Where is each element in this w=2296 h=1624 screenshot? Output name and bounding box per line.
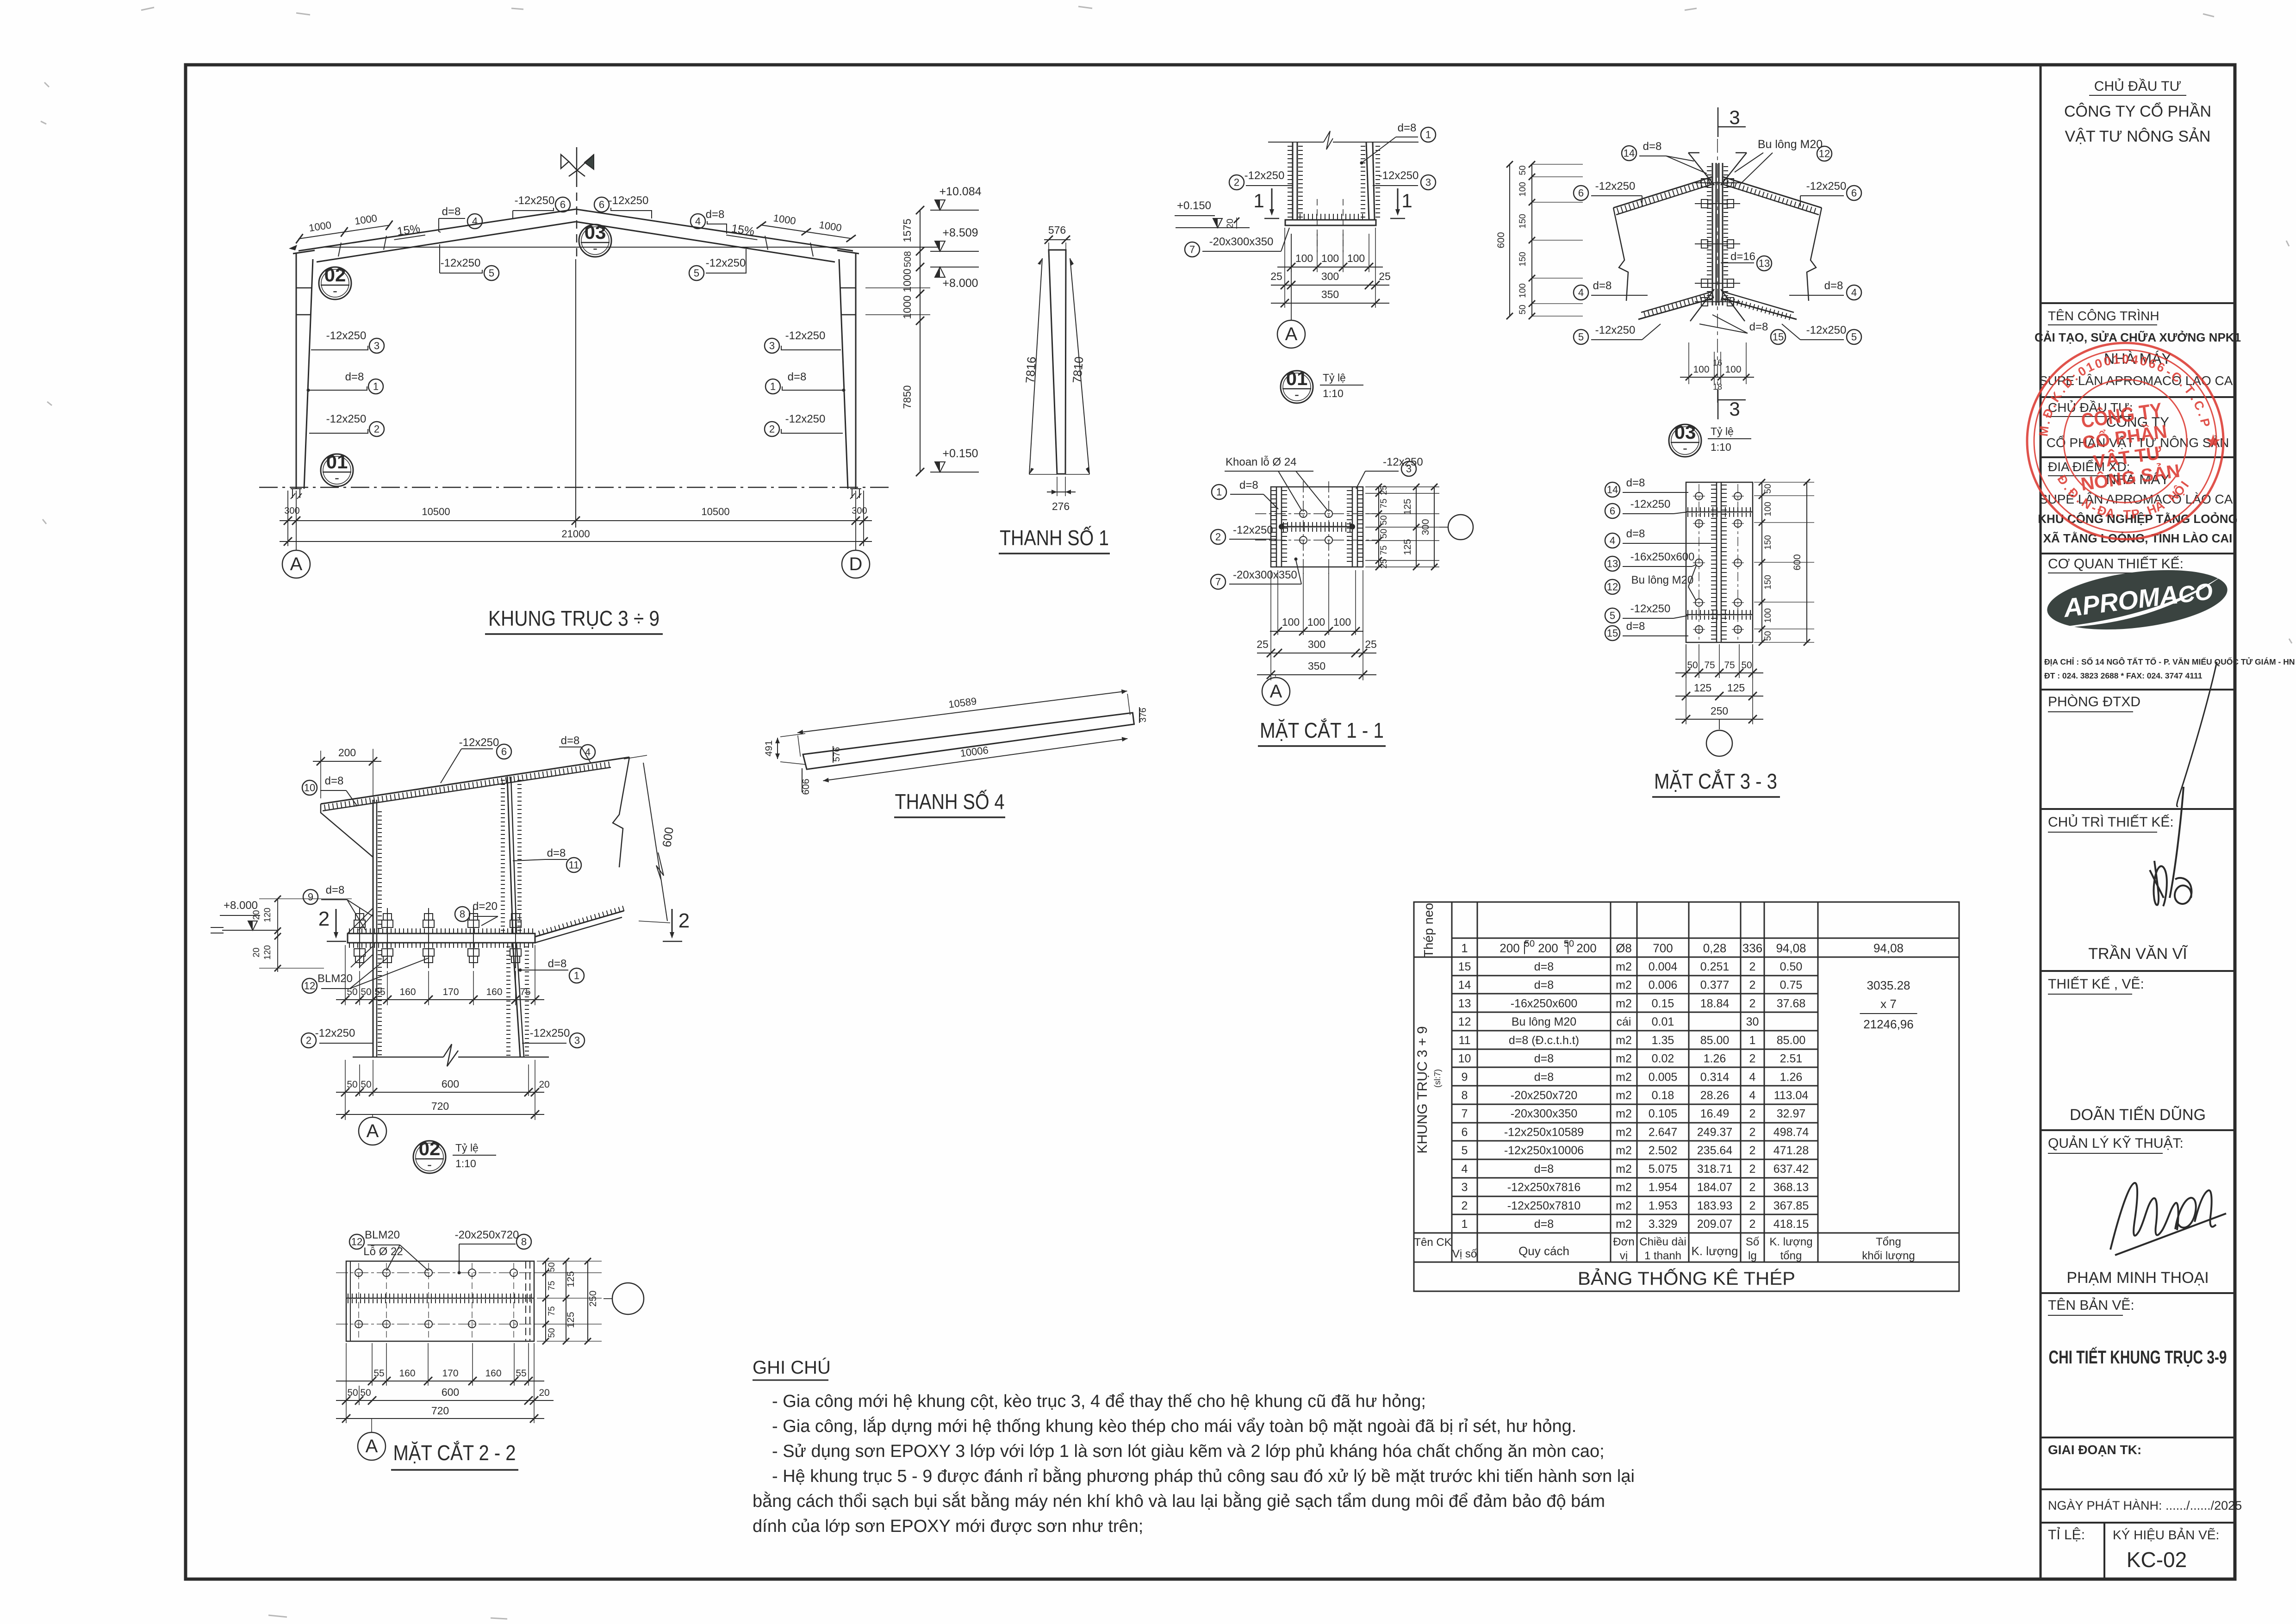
dim 350 bbox=[1271, 303, 1389, 304]
svg-text:4: 4 bbox=[585, 747, 591, 758]
svg-text:249.37: 249.37 bbox=[1697, 1126, 1732, 1139]
svg-text:-12x250x10006: -12x250x10006 bbox=[1504, 1144, 1584, 1157]
svg-text:ĐT : 024. 3823 2688 * FAX: 024: ĐT : 024. 3823 2688 * FAX: 024. 3747 411… bbox=[2044, 671, 2203, 680]
svg-text:Tổng: Tổng bbox=[1876, 1236, 1901, 1248]
empty bubble bbox=[1439, 527, 1448, 528]
label circle 6 bbox=[1574, 186, 1588, 200]
svg-text:160: 160 bbox=[486, 987, 502, 997]
svg-text:+8.000: +8.000 bbox=[224, 899, 258, 912]
level mark +0.150 bbox=[930, 472, 979, 473]
svg-text:0.75: 0.75 bbox=[1780, 979, 1803, 992]
svg-text:125: 125 bbox=[1727, 682, 1745, 694]
svg-text:1.953: 1.953 bbox=[1649, 1199, 1678, 1212]
svg-text:120: 120 bbox=[263, 945, 273, 960]
svg-text:-12x250: -12x250 bbox=[459, 736, 499, 749]
svg-text:50: 50 bbox=[1524, 939, 1535, 949]
label circle 15 bbox=[1771, 330, 1786, 344]
svg-text:d=8: d=8 bbox=[1643, 140, 1662, 153]
svg-text:350: 350 bbox=[1321, 288, 1339, 300]
dims 25/300/25 bbox=[1271, 285, 1389, 286]
svg-text:491: 491 bbox=[764, 740, 774, 756]
column D outer flange bbox=[855, 254, 857, 489]
svg-text:02: 02 bbox=[324, 264, 346, 286]
svg-text:+10.084: +10.084 bbox=[939, 185, 981, 198]
svg-text:3: 3 bbox=[769, 340, 775, 352]
svg-text:CẢI TẠO, SỬA CHỮA XƯỞNG NPK1: CẢI TẠO, SỬA CHỮA XƯỞNG NPK1 bbox=[2035, 330, 2241, 344]
svg-text:7810: 7810 bbox=[1070, 356, 1086, 384]
left rafter outline bbox=[1613, 177, 1712, 208]
svg-text:-20x250x720: -20x250x720 bbox=[1511, 1089, 1578, 1102]
svg-text:100: 100 bbox=[1518, 283, 1528, 298]
svg-text:3: 3 bbox=[1406, 463, 1412, 475]
svg-text:576: 576 bbox=[1048, 224, 1066, 236]
svg-text:125: 125 bbox=[1402, 539, 1413, 555]
dim 200 top left bbox=[320, 751, 321, 798]
signature squiggle 2 bbox=[2150, 787, 2191, 906]
ground dash-dot line bbox=[259, 487, 893, 488]
svg-text:-12x250: -12x250 bbox=[315, 1027, 355, 1039]
svg-text:7: 7 bbox=[1462, 1108, 1468, 1120]
svg-text:25: 25 bbox=[1270, 270, 1282, 282]
svg-text:2: 2 bbox=[1749, 960, 1756, 973]
svg-text:K. lượng: K. lượng bbox=[1692, 1244, 1738, 1258]
svg-text:50: 50 bbox=[1687, 660, 1698, 671]
svg-text:11: 11 bbox=[1459, 1034, 1471, 1047]
svg-text:CÔNG TY CỔ PHẦN: CÔNG TY CỔ PHẦN bbox=[2064, 103, 2211, 120]
svg-text:-12x250: -12x250 bbox=[785, 330, 826, 342]
label circle 5 bbox=[484, 266, 499, 280]
column D inner flange bbox=[839, 259, 848, 489]
svg-text:20: 20 bbox=[539, 1388, 549, 1398]
label circle 15 bbox=[1605, 626, 1620, 641]
label circle 10 bbox=[302, 780, 317, 795]
svg-text:khối lượng: khối lượng bbox=[1862, 1250, 1915, 1262]
svg-text:d=8: d=8 bbox=[345, 371, 364, 383]
svg-text:2: 2 bbox=[318, 908, 330, 930]
svg-text:3: 3 bbox=[1729, 106, 1740, 128]
svg-text:01: 01 bbox=[326, 451, 348, 473]
svg-text:1000: 1000 bbox=[901, 268, 913, 292]
svg-text:-12x250: -12x250 bbox=[1806, 324, 1847, 336]
slope label 15% left bbox=[392, 221, 425, 240]
svg-text:5.075: 5.075 bbox=[1649, 1163, 1678, 1176]
column A outer flange bbox=[296, 254, 297, 489]
detail callout 01 bbox=[321, 454, 353, 486]
svg-text:-12x250: -12x250 bbox=[1630, 498, 1671, 510]
level mark +10.084 bbox=[930, 210, 979, 211]
svg-text:d=8: d=8 bbox=[1593, 280, 1612, 292]
svg-text:12: 12 bbox=[351, 1236, 362, 1248]
detail callout 02 bbox=[319, 267, 351, 299]
signature squiggle 1 bbox=[2177, 662, 2217, 806]
svg-text:606: 606 bbox=[801, 778, 811, 795]
svg-text:GHI CHÚ: GHI CHÚ bbox=[753, 1357, 831, 1378]
svg-text:300: 300 bbox=[284, 506, 299, 516]
svg-text:21000: 21000 bbox=[561, 528, 590, 540]
svg-text:150: 150 bbox=[1518, 252, 1528, 267]
svg-text:150: 150 bbox=[1763, 575, 1773, 590]
600 dim right slanted bbox=[643, 763, 667, 921]
svg-text:cái: cái bbox=[1617, 1015, 1631, 1028]
label circle 4 bbox=[580, 745, 595, 759]
svg-text:100: 100 bbox=[1282, 616, 1300, 628]
bolt circles bbox=[1695, 492, 1703, 500]
svg-text:1: 1 bbox=[1749, 1034, 1756, 1047]
rafter left top flange bbox=[299, 209, 576, 251]
svg-text:600: 600 bbox=[660, 826, 676, 848]
svg-text:BẢNG THỐNG KÊ THÉP: BẢNG THỐNG KÊ THÉP bbox=[1578, 1268, 1795, 1289]
svg-text:720: 720 bbox=[431, 1405, 449, 1417]
svg-text:336: 336 bbox=[1742, 941, 1762, 955]
svg-text:m2: m2 bbox=[1616, 1034, 1632, 1047]
svg-text:3: 3 bbox=[1425, 177, 1431, 188]
svg-text:Tỷ lệ: Tỷ lệ bbox=[455, 1142, 479, 1154]
svg-text:14: 14 bbox=[1458, 979, 1471, 992]
svg-text:508: 508 bbox=[902, 251, 913, 267]
svg-text:300: 300 bbox=[852, 506, 867, 516]
svg-text:-12x250: -12x250 bbox=[515, 194, 555, 207]
svg-text:55: 55 bbox=[516, 1368, 526, 1379]
overhang gusset bbox=[321, 804, 373, 857]
svg-text:75: 75 bbox=[1379, 498, 1389, 508]
column flange plates bbox=[1292, 142, 1294, 220]
svg-text:183.93: 183.93 bbox=[1697, 1199, 1732, 1212]
svg-text:2.502: 2.502 bbox=[1649, 1144, 1678, 1157]
svg-text:d=8: d=8 bbox=[326, 884, 345, 896]
label circle 7 bbox=[1211, 574, 1226, 589]
dim 276 bottom bbox=[1029, 474, 1057, 475]
svg-text:0,28: 0,28 bbox=[1703, 941, 1727, 955]
dim 576 top bbox=[1044, 239, 1070, 240]
svg-text:2: 2 bbox=[678, 909, 690, 932]
svg-text:MẶT CẮT 2 - 2: MẶT CẮT 2 - 2 bbox=[393, 1441, 516, 1465]
svg-text:PHÒNG ĐTXD: PHÒNG ĐTXD bbox=[2048, 694, 2140, 709]
bottom dims bbox=[1277, 570, 1278, 635]
label circle 11 bbox=[566, 858, 581, 872]
label circle 1 bbox=[569, 968, 584, 983]
svg-text:20: 20 bbox=[539, 1079, 549, 1090]
svg-text:85.00: 85.00 bbox=[1777, 1034, 1806, 1047]
svg-text:170: 170 bbox=[442, 1368, 458, 1379]
svg-text:m2: m2 bbox=[1616, 1052, 1632, 1065]
svg-text:-20x300x350: -20x300x350 bbox=[1209, 236, 1274, 248]
svg-text:★: ★ bbox=[2206, 432, 2221, 451]
svg-text:THANH SỐ 1: THANH SỐ 1 bbox=[1000, 526, 1109, 550]
label circle 2 bbox=[1229, 175, 1244, 190]
svg-text:100: 100 bbox=[1347, 252, 1365, 264]
base plate -20x300x350 bbox=[1285, 220, 1376, 225]
svg-text:d=8: d=8 bbox=[1626, 528, 1645, 540]
column break bottom bbox=[353, 1057, 443, 1058]
svg-text:-12x250x7816: -12x250x7816 bbox=[1507, 1181, 1580, 1194]
svg-text:0.251: 0.251 bbox=[1700, 960, 1730, 973]
svg-text:300: 300 bbox=[1420, 519, 1431, 535]
column A inner flange bbox=[304, 259, 313, 489]
svg-text:m2: m2 bbox=[1616, 1070, 1632, 1083]
label circle 14 bbox=[1605, 482, 1620, 497]
svg-text:Bu lông M20: Bu lông M20 bbox=[1758, 138, 1823, 151]
svg-text:-20x250x720: -20x250x720 bbox=[455, 1229, 519, 1241]
svg-text:12: 12 bbox=[1607, 581, 1618, 593]
svg-text:50: 50 bbox=[1763, 484, 1773, 493]
svg-text:-12x250x10589: -12x250x10589 bbox=[1504, 1126, 1584, 1139]
svg-text:(sl:7): (sl:7) bbox=[1433, 1069, 1442, 1088]
dim 1000x2 right above rafter bbox=[757, 210, 858, 243]
svg-text:BLM20: BLM20 bbox=[317, 972, 353, 985]
svg-text:498.74: 498.74 bbox=[1773, 1126, 1809, 1139]
svg-text:Bu lông M20: Bu lông M20 bbox=[1512, 1015, 1576, 1028]
svg-text:1: 1 bbox=[574, 970, 579, 982]
level mark +8.000 bbox=[930, 267, 979, 268]
svg-text:100: 100 bbox=[1518, 182, 1528, 197]
purlin tick marks on rafters bbox=[338, 243, 341, 256]
svg-text:13: 13 bbox=[1458, 997, 1471, 1010]
svg-text:184.07: 184.07 bbox=[1697, 1181, 1732, 1194]
svg-text:2: 2 bbox=[1749, 1181, 1756, 1194]
grid bubble stems bbox=[296, 491, 297, 550]
svg-text:lg: lg bbox=[1748, 1250, 1757, 1262]
svg-text:75: 75 bbox=[547, 1306, 557, 1316]
svg-text:150: 150 bbox=[1518, 214, 1528, 229]
svg-text:Số: Số bbox=[1746, 1236, 1759, 1248]
svg-text:d=8: d=8 bbox=[1824, 280, 1843, 292]
svg-text:KHUNG TRỤC 3 ÷ 9: KHUNG TRỤC 3 ÷ 9 bbox=[488, 606, 660, 630]
svg-text:d=8: d=8 bbox=[1534, 1163, 1554, 1176]
svg-text:3035.28: 3035.28 bbox=[1867, 978, 1910, 992]
svg-text:3: 3 bbox=[1729, 398, 1740, 420]
svg-text:2: 2 bbox=[1749, 1108, 1756, 1120]
svg-text:1: 1 bbox=[2112, 352, 2121, 367]
svg-text:200: 200 bbox=[1576, 941, 1596, 955]
right dashed edge bbox=[525, 1261, 526, 1341]
svg-text:-12x250: -12x250 bbox=[1233, 524, 1273, 536]
column base anchor detail left bbox=[291, 489, 302, 499]
svg-text:D: D bbox=[849, 554, 863, 574]
svg-text:10500: 10500 bbox=[701, 506, 729, 517]
svg-text:3.329: 3.329 bbox=[1649, 1218, 1678, 1231]
svg-text:637.42: 637.42 bbox=[1773, 1163, 1809, 1176]
column D cap bbox=[837, 250, 859, 254]
svg-text:m2: m2 bbox=[1616, 1181, 1632, 1194]
level mark +8.509 bbox=[930, 251, 979, 252]
label circle 3 bbox=[570, 1033, 585, 1048]
svg-text:18.84: 18.84 bbox=[1700, 997, 1730, 1010]
label circle 12 bbox=[302, 978, 317, 993]
svg-text:-12x250: -12x250 bbox=[1595, 180, 1636, 193]
svg-text:KC-02: KC-02 bbox=[2127, 1548, 2187, 1572]
svg-text:Bu lông M20: Bu lông M20 bbox=[1631, 574, 1694, 586]
svg-text:376: 376 bbox=[1139, 708, 1148, 722]
svg-text:15: 15 bbox=[1773, 331, 1784, 343]
svg-text:250: 250 bbox=[1711, 705, 1728, 717]
svg-text:d=8: d=8 bbox=[1398, 122, 1417, 134]
svg-text:5: 5 bbox=[1578, 331, 1584, 343]
svg-text:4: 4 bbox=[1462, 1163, 1468, 1176]
svg-text:d=8: d=8 bbox=[325, 775, 344, 787]
svg-text:Chiều dài: Chiều dài bbox=[1639, 1236, 1686, 1248]
span dim line 300/10500/10500/300 bbox=[280, 520, 872, 521]
svg-text:6: 6 bbox=[1851, 187, 1857, 199]
svg-text:d=8: d=8 bbox=[547, 847, 566, 859]
svg-text:2.647: 2.647 bbox=[1649, 1126, 1678, 1139]
svg-text:m2: m2 bbox=[1616, 979, 1632, 992]
label circle 14 bbox=[1622, 146, 1636, 161]
svg-text:d=8: d=8 bbox=[1534, 1052, 1554, 1065]
svg-text:318.71: 318.71 bbox=[1697, 1163, 1732, 1176]
svg-text:TỈ LỆ:: TỈ LỆ: bbox=[2048, 1527, 2085, 1543]
svg-text:d=8: d=8 bbox=[706, 208, 725, 221]
svg-text:CHỦ ĐẦU TƯ: CHỦ ĐẦU TƯ bbox=[2094, 78, 2181, 94]
svg-text:300: 300 bbox=[1308, 638, 1325, 650]
svg-text:2: 2 bbox=[374, 423, 380, 435]
svg-text:13: 13 bbox=[1759, 258, 1770, 269]
svg-text:2: 2 bbox=[1749, 1218, 1756, 1231]
grid bubble D bbox=[842, 550, 870, 578]
svg-text:25: 25 bbox=[1379, 485, 1389, 495]
svg-text:PHẠM MINH THOẠI: PHẠM MINH THOẠI bbox=[2066, 1269, 2209, 1287]
svg-text:CHỦ TRÌ THIẾT KẾ:: CHỦ TRÌ THIẾT KẾ: bbox=[2048, 814, 2174, 830]
svg-text:1: 1 bbox=[1461, 941, 1468, 955]
svg-text:d=8 (Đ.c.t.h.t): d=8 (Đ.c.t.h.t) bbox=[1509, 1034, 1579, 1047]
top gusset bbox=[1688, 153, 1747, 185]
svg-text:276: 276 bbox=[1052, 500, 1070, 512]
svg-text:+0.150: +0.150 bbox=[1177, 199, 1211, 212]
label circle 2 bbox=[1211, 529, 1226, 544]
svg-text:125: 125 bbox=[566, 1271, 576, 1287]
bolt gauge dashed verticals + holes bbox=[358, 1263, 359, 1339]
svg-text:tổng: tổng bbox=[1780, 1250, 1802, 1262]
svg-text:250: 250 bbox=[588, 1290, 598, 1307]
svg-text:350: 350 bbox=[1308, 660, 1325, 672]
svg-text:16: 16 bbox=[1713, 358, 1722, 367]
svg-text:-12x250: -12x250 bbox=[1244, 169, 1285, 182]
detail callout 02 bbox=[413, 1141, 446, 1173]
svg-text:3: 3 bbox=[574, 1035, 580, 1046]
svg-text:d=8: d=8 bbox=[548, 958, 567, 970]
svg-text:2.51: 2.51 bbox=[1780, 1052, 1803, 1065]
svg-text:50: 50 bbox=[547, 1262, 557, 1272]
column D splice ticks bbox=[840, 287, 856, 289]
svg-text:160: 160 bbox=[399, 987, 416, 997]
svg-text:50: 50 bbox=[1518, 305, 1528, 314]
label circle 2 bbox=[369, 422, 384, 436]
chain extension lines bbox=[865, 287, 930, 288]
svg-text:Ø8: Ø8 bbox=[1616, 941, 1632, 955]
svg-text:m2: m2 bbox=[1616, 1144, 1632, 1157]
svg-text:50: 50 bbox=[361, 987, 371, 997]
svg-text:125: 125 bbox=[566, 1312, 576, 1328]
label circle 1 bbox=[1421, 127, 1436, 142]
svg-text:75: 75 bbox=[1379, 545, 1389, 555]
svg-text:1: 1 bbox=[1253, 190, 1264, 212]
svg-text:0.004: 0.004 bbox=[1649, 960, 1678, 973]
svg-text:2: 2 bbox=[769, 423, 775, 435]
svg-text:94,08: 94,08 bbox=[1776, 941, 1806, 955]
label circle 13 bbox=[1605, 556, 1620, 571]
svg-text:100: 100 bbox=[1321, 252, 1339, 264]
svg-text:d=16: d=16 bbox=[1730, 250, 1755, 263]
svg-text:TRẦN VĂN VĨ: TRẦN VĂN VĨ bbox=[2088, 945, 2188, 963]
weld band above base plate bbox=[1298, 214, 1366, 219]
svg-text:4: 4 bbox=[1851, 287, 1857, 299]
svg-text:8: 8 bbox=[521, 1236, 527, 1248]
label circle 9 bbox=[303, 890, 318, 904]
svg-text:2: 2 bbox=[1749, 1126, 1756, 1139]
svg-text:2: 2 bbox=[306, 1035, 311, 1046]
svg-text:25: 25 bbox=[1257, 638, 1269, 650]
svg-text:14: 14 bbox=[1624, 148, 1635, 159]
right dim chains bbox=[1365, 486, 1439, 487]
svg-text:7: 7 bbox=[1215, 576, 1221, 588]
svg-text:200: 200 bbox=[1538, 941, 1558, 955]
svg-text:m2: m2 bbox=[1616, 1199, 1632, 1212]
dim 7816 left bbox=[1029, 258, 1042, 474]
svg-text:720: 720 bbox=[431, 1100, 449, 1112]
svg-text:2: 2 bbox=[1234, 177, 1239, 188]
base extension lines bbox=[287, 491, 288, 528]
svg-text:6: 6 bbox=[560, 199, 566, 211]
label circle 3 bbox=[369, 338, 384, 353]
svg-text:x 7: x 7 bbox=[1880, 997, 1897, 1011]
svg-text:15: 15 bbox=[1607, 628, 1618, 639]
svg-text:2: 2 bbox=[1749, 1052, 1756, 1065]
svg-text:MẶT CẮT 3 - 3: MẶT CẮT 3 - 3 bbox=[1654, 769, 1777, 793]
label circle 12 bbox=[349, 1234, 364, 1249]
svg-text:120: 120 bbox=[263, 908, 273, 922]
rafter right bottom flange bbox=[576, 222, 835, 262]
svg-text:-12x250: -12x250 bbox=[441, 257, 481, 269]
right dim chains MC2-2 bbox=[537, 1261, 602, 1262]
svg-text:0.377: 0.377 bbox=[1700, 979, 1730, 992]
svg-text:-12x250: -12x250 bbox=[609, 194, 649, 207]
svg-text:M: M bbox=[2036, 425, 2052, 437]
svg-text:-12x250: -12x250 bbox=[326, 413, 367, 425]
center weld band bbox=[346, 1294, 534, 1298]
svg-text:50: 50 bbox=[1763, 631, 1773, 641]
svg-text:125: 125 bbox=[1402, 498, 1413, 515]
svg-text:1.26: 1.26 bbox=[1780, 1070, 1803, 1083]
svg-text:d=8: d=8 bbox=[1749, 321, 1768, 333]
svg-text:2: 2 bbox=[1749, 1163, 1756, 1176]
svg-text:-12x250x7810: -12x250x7810 bbox=[1507, 1199, 1580, 1212]
svg-text:2: 2 bbox=[1749, 1199, 1756, 1212]
svg-text:d=8: d=8 bbox=[1239, 479, 1258, 492]
svg-text:1: 1 bbox=[1216, 486, 1222, 498]
svg-text:6: 6 bbox=[1462, 1126, 1468, 1139]
label circle 4 bbox=[1605, 533, 1620, 548]
svg-text:TÊN BẢN VẼ:: TÊN BẢN VẼ: bbox=[2048, 1297, 2134, 1313]
svg-text:0.50: 0.50 bbox=[1780, 960, 1803, 973]
member outline (tapered bar) bbox=[1049, 250, 1066, 474]
cap splice plate bbox=[348, 933, 535, 943]
svg-text:-12x250: -12x250 bbox=[1379, 169, 1419, 182]
svg-text:600: 600 bbox=[1496, 232, 1506, 248]
svg-text:2: 2 bbox=[1749, 979, 1756, 992]
svg-text:20: 20 bbox=[1226, 218, 1235, 228]
svg-text:03: 03 bbox=[1674, 421, 1696, 443]
svg-text:1:10: 1:10 bbox=[455, 1157, 476, 1170]
svg-text:Vị số: Vị số bbox=[1452, 1248, 1477, 1260]
svg-text:25: 25 bbox=[1379, 559, 1389, 568]
left small dim chain 120/20 bbox=[277, 899, 278, 972]
column base anchor detail right bbox=[850, 489, 861, 499]
flange plates in plan bbox=[1276, 487, 1277, 567]
svg-text:100: 100 bbox=[1725, 364, 1741, 375]
svg-text:1: 1 bbox=[1462, 1218, 1468, 1231]
svg-text:d=8: d=8 bbox=[442, 205, 461, 218]
svg-text:600: 600 bbox=[1792, 554, 1803, 570]
svg-text:13: 13 bbox=[1607, 558, 1618, 570]
